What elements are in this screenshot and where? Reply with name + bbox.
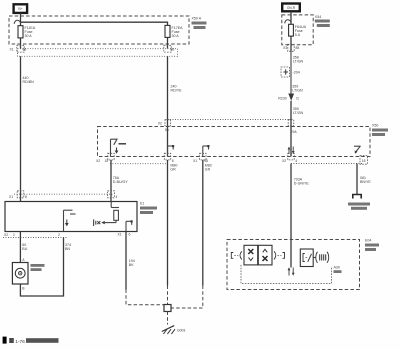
svg-text:LT/GN: LT/GN [292, 89, 303, 93]
wire junction to ground [167, 312, 169, 325]
blower motor M1 [12, 263, 44, 285]
ground G003 [162, 326, 186, 334]
dotted connector row X2 (upper) [158, 120, 298, 135]
wire 359 LT/GN upper [292, 85, 303, 93]
fuse F17EA [165, 25, 183, 48]
svg-text:R230: R230 [278, 97, 287, 101]
wire 081 BN/YE (pin 16) [357, 164, 371, 195]
ground junction node [164, 305, 171, 312]
in-line connector X204 [281, 52, 300, 94]
svg-text:GR: GR [205, 167, 211, 171]
HVAC control module dashed box [98, 127, 371, 157]
fuse F11EA [18, 26, 36, 49]
label: refrigerant pressure sensor (right of box) [365, 239, 379, 252]
svg-text:E04: E04 [365, 239, 371, 243]
inner dashed mechanical link [241, 265, 332, 284]
svg-text:X1: X1 [118, 233, 122, 237]
svg-text:86: 86 [171, 48, 175, 52]
svg-text:85: 85 [296, 46, 300, 50]
fuse box X50 dashed outline [9, 16, 189, 44]
svg-text:X50: X50 [372, 124, 378, 128]
module blower switch [111, 139, 127, 156]
motor return wire 374 BN [20, 238, 71, 297]
wire from ON-R down [290, 11, 292, 24]
wire branch to fuse F17EA [21, 22, 168, 25]
svg-text:-204: -204 [293, 71, 300, 75]
svg-text:2: 2 [58, 233, 60, 237]
blower motor speed module box [5, 202, 137, 232]
module hook pin 98 [203, 145, 210, 157]
heater coil element [313, 252, 329, 263]
connector brackets around solenoids [231, 251, 284, 259]
power terminal ON-R [282, 4, 300, 12]
svg-text:X2: X2 [96, 159, 100, 163]
label: instrument panel fuse block (right of box) [315, 15, 330, 27]
wire 358 LT/GN [293, 56, 304, 64]
wire M8C GR (pin 98) [203, 160, 213, 286]
fuse box X54 dashed outline [282, 15, 313, 45]
svg-text:X3: X3 [283, 46, 287, 50]
label: blower speed controller (right of box) [140, 202, 157, 215]
power terminal B+ [14, 4, 28, 13]
svg-text:1: 1 [13, 233, 15, 237]
svg-text:X1: X1 [9, 195, 13, 199]
dotted connector row below box [3, 237, 67, 239]
splice R230 [278, 94, 299, 101]
label A30 coil [334, 266, 342, 274]
module switch at pin 16 [354, 146, 361, 154]
svg-text:G003: G003 [177, 329, 185, 333]
wire 440 RD/BN down left [21, 56, 35, 201]
pressure switch box [300, 249, 313, 267]
dotted connector row X2 (lower left) [110, 163, 168, 165]
wire 75A D-BU/GY [111, 160, 128, 202]
module bottom pin boxes and labels [96, 153, 367, 164]
connector strip X1 dotted [10, 45, 178, 56]
relay coil in box [111, 202, 119, 223]
svg-text:/1: /1 [296, 97, 299, 101]
svg-text:6: 6 [129, 233, 131, 237]
svg-text:16: 16 [362, 159, 366, 163]
svg-text:D-BU/GY: D-BU/GY [113, 180, 129, 184]
module up/down arrows at pin X2-4 [288, 147, 295, 155]
ground dashed links from M80/M8C wires [168, 286, 203, 309]
svg-text:BN/YE: BN/YE [360, 180, 371, 184]
wire 240 RD/YE down center [168, 56, 183, 156]
svg-text:D-GN/YE: D-GN/YE [294, 182, 310, 186]
dotted connector row X2 (lower right) [291, 163, 363, 165]
svg-text:X2: X2 [282, 159, 286, 163]
svg-text:8a: 8a [165, 128, 169, 132]
actuator arrow to switch [94, 219, 117, 226]
svg-text:X2: X2 [4, 233, 8, 237]
wire M80 GR (pin 6) [168, 160, 178, 286]
svg-text:1-76: 1-76 [15, 339, 25, 345]
svg-text:LT/GN: LT/GN [293, 111, 304, 115]
svg-text:A30: A30 [334, 266, 340, 270]
svg-text:4: 4 [295, 159, 297, 163]
wire 703A D-GN/YE (pin X2-4) [291, 164, 309, 268]
compressor wire end up/down arrows [288, 267, 295, 276]
svg-text:X1: X1 [10, 48, 14, 52]
svg-text:5 A: 5 A [295, 33, 301, 37]
svg-text:4: 4 [116, 195, 118, 199]
A/C compressor assembly dashed box [227, 240, 360, 290]
fuse F64UA [289, 24, 307, 51]
hook in box (pin X1-6) [126, 220, 133, 231]
svg-text:X50 A: X50 A [192, 17, 202, 21]
compressor solenoid A [244, 245, 258, 265]
dotted connector row above blower module [9, 191, 118, 199]
svg-text:30 A: 30 A [25, 34, 33, 38]
svg-text:30 A: 30 A [172, 34, 180, 38]
label: HVAC controller (right of module) [372, 124, 388, 137]
caption bar [3, 337, 59, 345]
svg-text:98: 98 [204, 159, 208, 163]
wire tap hook at fuse box entry [14, 20, 20, 24]
blower switch in box [64, 210, 76, 231]
svg-text:BK: BK [129, 263, 134, 267]
svg-text:ON-R: ON-R [287, 6, 296, 10]
wire 359 LT/GN lower [291, 101, 304, 157]
compressor solenoid B [258, 245, 272, 265]
svg-text:BN: BN [65, 247, 70, 251]
label: engine compartment fuse block (right of box) [192, 17, 207, 30]
svg-text:LT/GN: LT/GN [293, 60, 304, 64]
svg-text:B+: B+ [18, 7, 22, 11]
svg-text:E1: E1 [140, 202, 144, 206]
battery positive cable clamp [348, 195, 370, 210]
svg-text:X2: X2 [158, 122, 162, 126]
wire tap hook in X54 [285, 20, 291, 24]
svg-text:GR: GR [170, 167, 176, 171]
wire 60 BU to blower motor [20, 232, 27, 263]
wire from B+ down to fuse F11EA [20, 13, 22, 26]
connector pin X3 85 [283, 44, 299, 51]
module hook pin 6 [168, 145, 175, 157]
svg-text:RD/BN: RD/BN [23, 80, 35, 84]
svg-text:BU: BU [22, 247, 27, 251]
svg-text:X54: X54 [315, 15, 321, 19]
svg-text:15: 15 [105, 159, 109, 163]
svg-text:X1: X1 [193, 159, 197, 163]
ground wire 194 BK from pin X1-6 [126, 232, 164, 305]
svg-text:E9A: E9A [290, 130, 297, 134]
box bottom pin labels [4, 233, 131, 238]
svg-text:8: 8 [25, 195, 27, 199]
svg-text:86: 86 [23, 48, 27, 52]
svg-text:RD/YE: RD/YE [171, 89, 183, 93]
